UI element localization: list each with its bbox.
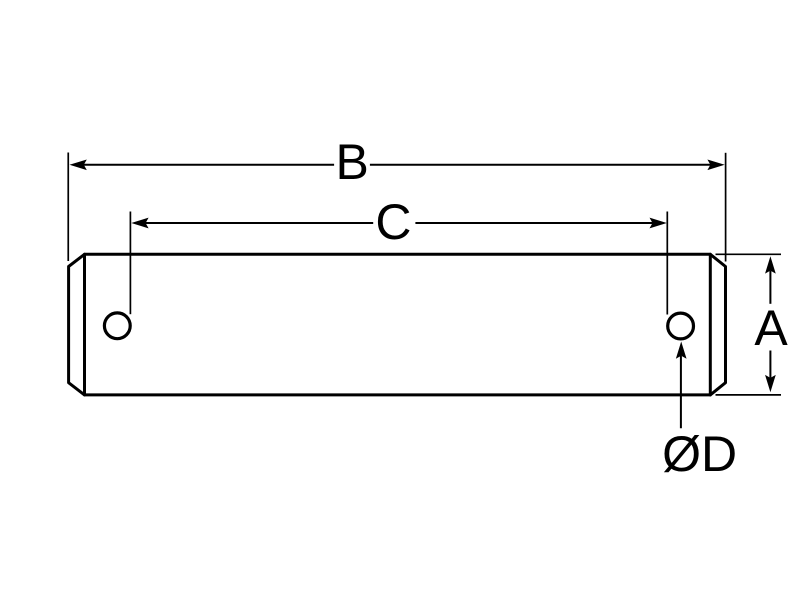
- svg-text:ØD: ØD: [662, 426, 737, 482]
- svg-text:A: A: [754, 300, 788, 356]
- svg-text:C: C: [375, 194, 411, 250]
- svg-text:B: B: [336, 134, 369, 190]
